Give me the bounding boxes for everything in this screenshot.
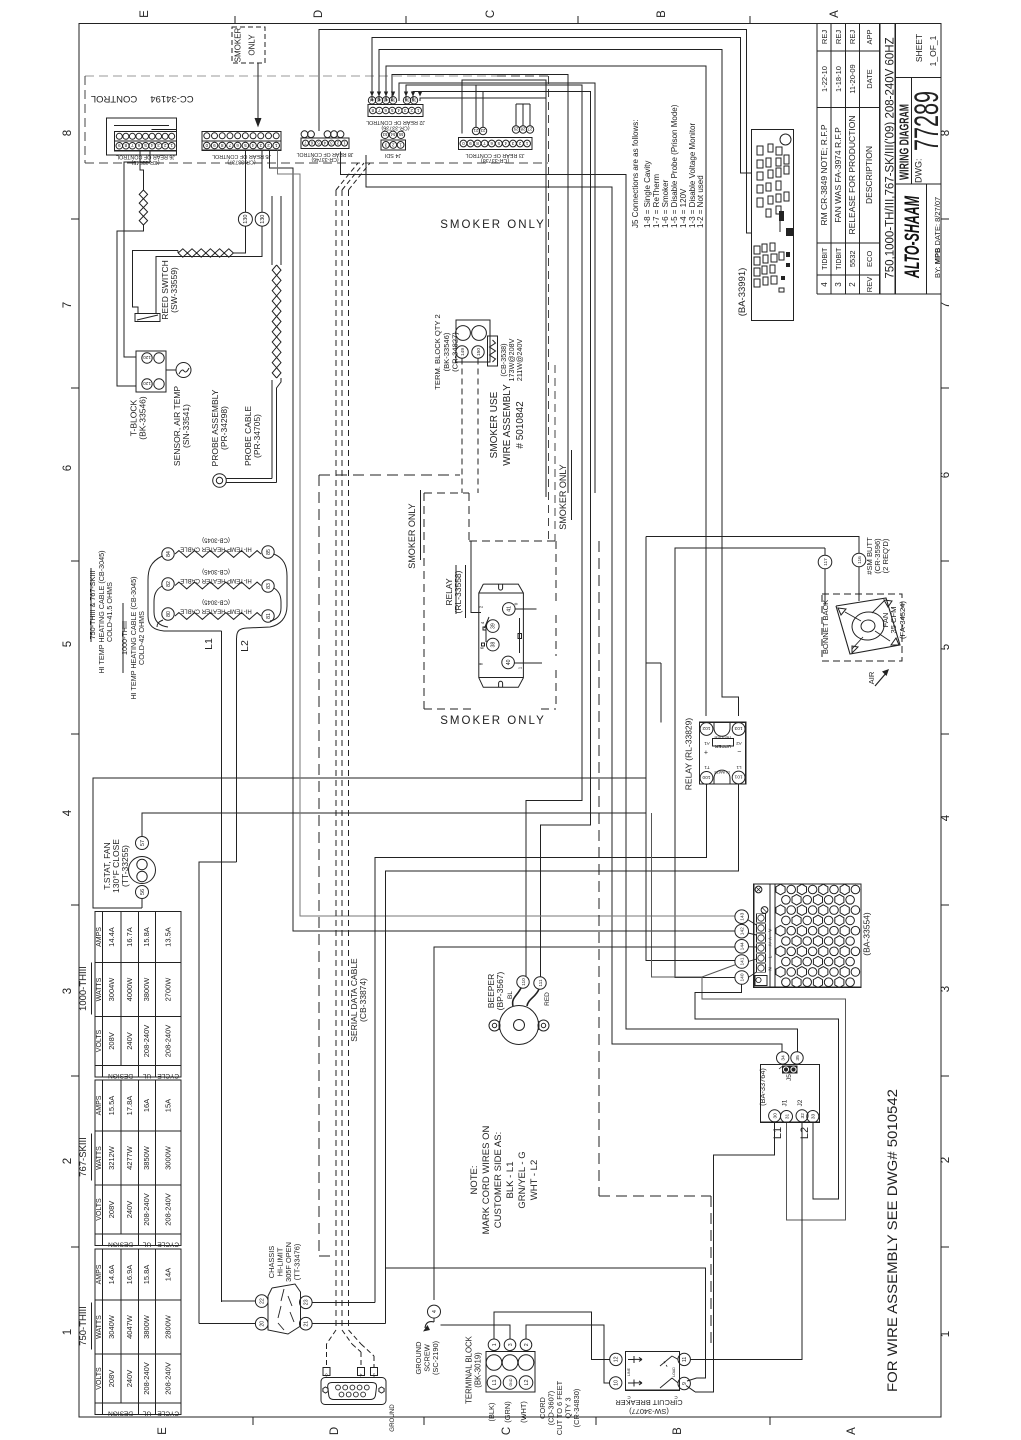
BA-33554 terminal 141 <box>735 955 749 969</box>
wire fan 116 feed <box>646 536 859 553</box>
svg-text:3: 3 <box>508 1343 514 1346</box>
svg-text:(SC-2190): (SC-2190) <box>431 1341 440 1375</box>
svg-text:6: 6 <box>137 143 140 148</box>
svg-text:TIDBIT: TIDBIT <box>822 247 829 270</box>
svg-text:208V: 208V <box>107 1370 116 1388</box>
svg-text:(GRN): (GRN) <box>503 1401 512 1422</box>
svg-text:2: 2 <box>524 1343 530 1346</box>
svg-text:1-22-10: 1-22-10 <box>820 66 829 92</box>
svg-text:WATTS: WATTS <box>96 977 103 1001</box>
svg-text:4: 4 <box>432 1310 438 1313</box>
svg-text:57: 57 <box>140 840 146 846</box>
svg-text:21: 21 <box>473 128 478 133</box>
svg-text:140: 140 <box>740 973 746 981</box>
svg-text:GND: GND <box>509 1378 513 1386</box>
svg-text:(WHT): (WHT) <box>519 1401 528 1423</box>
svg-text:(PR-34298): (PR-34298) <box>219 406 229 450</box>
svg-text:WATTS: WATTS <box>96 1146 103 1170</box>
svg-text:A+ A-: A+ A- <box>768 935 773 946</box>
T-stat fan TT-33255 <box>136 837 149 850</box>
svg-text:34: 34 <box>780 1055 786 1061</box>
svg-text:DESCRIPTION: DESCRIPTION <box>864 146 874 204</box>
svg-text:AIR: AIR <box>867 671 876 684</box>
svg-text:8: 8 <box>371 108 374 113</box>
svg-text:REV: REV <box>865 277 874 292</box>
svg-text:(SW-34077): (SW-34077) <box>629 1407 669 1416</box>
relay RL-33558 contacts <box>485 617 490 628</box>
svg-text:UPPER: UPPER <box>714 743 731 749</box>
wire reed switch left to circled 130 via twisted pair <box>133 250 179 313</box>
svg-text:10: 10 <box>613 1380 619 1386</box>
fan terminal 116 <box>852 553 866 567</box>
svg-text:54: 54 <box>390 132 395 137</box>
relay RL-33558 pin2 wire <box>471 541 481 612</box>
svg-text:1: 1 <box>492 1343 498 1346</box>
heater terminal 82 <box>162 578 174 590</box>
wire J5 drop 142 <box>270 151 736 931</box>
heater terminal 85 <box>262 546 274 558</box>
svg-text:(CB-3045): (CB-3045) <box>202 568 230 574</box>
svg-text:4: 4 <box>940 814 952 821</box>
wire TB pin2 to breaker 10 <box>526 1325 610 1383</box>
svg-text:211W@240V: 211W@240V <box>515 339 524 382</box>
svg-text:5: 5 <box>62 641 74 647</box>
svg-text:11-20-09: 11-20-09 <box>848 64 857 93</box>
svg-text:13.5A: 13.5A <box>163 927 172 947</box>
svg-text:DATE: DATE <box>865 69 874 88</box>
svg-text:A: A <box>846 1427 858 1435</box>
svg-text:101: 101 <box>734 774 742 780</box>
svg-text:141: 141 <box>740 957 746 965</box>
hi-temp heater cable 3 <box>175 613 261 620</box>
svg-text:41: 41 <box>507 606 513 612</box>
fan terminal 117 <box>818 555 832 569</box>
reed switch SW-33559 <box>135 314 160 322</box>
svg-text:55: 55 <box>398 132 403 137</box>
serial data cable dashed bundle <box>335 190 337 1330</box>
svg-text:SMOKER ONLY: SMOKER ONLY <box>407 503 417 568</box>
svg-text:14A: 14A <box>163 1268 172 1281</box>
wire J8 pin to BA-33764 35 feed <box>341 151 798 1051</box>
BA-33764 pins 30 31 32 33 <box>769 1110 781 1122</box>
svg-text:AMPS: AMPS <box>96 927 103 947</box>
BA-33764 J5 jumper block <box>782 1066 798 1074</box>
svg-text:130: 130 <box>243 215 249 224</box>
svg-text:6: 6 <box>490 141 493 146</box>
heater terminal 81 <box>262 610 274 622</box>
svg-text:39: 39 <box>390 98 395 103</box>
svg-text:APP: APP <box>865 29 874 44</box>
svg-text:(BA-33991): (BA-33991) <box>737 268 748 317</box>
svg-text:(TT-33255): (TT-33255) <box>120 845 130 887</box>
BA-33554 screws <box>755 886 762 893</box>
svg-text:16.9A: 16.9A <box>125 1265 134 1285</box>
svg-text:LINE: LINE <box>627 1367 631 1376</box>
svg-text:14.4A: 14.4A <box>107 927 116 947</box>
svg-text:208-240V: 208-240V <box>163 1025 172 1058</box>
svg-text:MARK CORD WIRES ON: MARK CORD WIRES ON <box>481 1126 492 1235</box>
spec table 767-SKIII <box>95 1080 181 1246</box>
svg-text:1: 1 <box>170 143 173 148</box>
title block outline <box>816 24 818 295</box>
svg-text:AMPS: AMPS <box>96 1264 103 1284</box>
svg-text:6: 6 <box>62 465 74 471</box>
svg-text:SMOKER ONLY: SMOKER ONLY <box>440 715 546 727</box>
BA-33554 honeycomb pattern <box>776 884 785 895</box>
svg-text:3: 3 <box>259 143 262 148</box>
svg-text:CYCLE: CYCLE <box>157 1410 179 1417</box>
spec table 1000-THIII <box>95 912 181 1078</box>
svg-text:5: 5 <box>940 644 952 650</box>
svg-text:N: N <box>768 967 773 970</box>
svg-text:143: 143 <box>740 912 746 920</box>
svg-text:L: L <box>768 955 773 958</box>
svg-text:100: 100 <box>702 774 710 780</box>
svg-text:HI-TEMP HEATER CABLE: HI-TEMP HEATER CABLE <box>180 546 251 552</box>
wire to 34 <box>611 1043 613 1045</box>
svg-text:REJ: REJ <box>834 30 843 44</box>
board BA-33554 <box>754 884 861 987</box>
svg-text:1000-THIII: 1000-THIII <box>78 966 89 1011</box>
svg-text:J1: J1 <box>782 1099 789 1106</box>
wire hi-limit 20 to left riser <box>199 1323 255 1325</box>
hi-limit terminals <box>255 1295 268 1308</box>
svg-text:L1: L1 <box>736 765 742 770</box>
svg-text:2: 2 <box>392 142 395 147</box>
bus wire J2 pin3 to relay RL-33829 pin 102 <box>386 66 706 716</box>
svg-text:40: 40 <box>506 659 512 665</box>
svg-text:WIRE ASSEMBLY: WIRE ASSEMBLY <box>502 384 513 466</box>
svg-text:16A: 16A <box>142 1099 151 1112</box>
wire pin30 to breaker 9 <box>695 1122 775 1392</box>
circuit breaker SW-34077 body <box>626 1352 680 1391</box>
wire y663 tie <box>646 662 661 664</box>
svg-text:J5 Connections are as follows:: J5 Connections are as follows: <box>631 120 640 229</box>
svg-text:31: 31 <box>784 1114 790 1120</box>
wire T-stat 56 down loop <box>141 899 143 909</box>
svg-text:2: 2 <box>518 141 521 146</box>
dashed wires from 149/150 <box>461 359 463 494</box>
BA-33764 pin 34 <box>777 1052 789 1064</box>
svg-text:3: 3 <box>157 143 160 148</box>
svg-text:142: 142 <box>740 927 746 935</box>
svg-text:VOLTS: VOLTS <box>96 1198 103 1221</box>
svg-text:3800W: 3800W <box>142 977 151 1002</box>
svg-text:3850W: 3850W <box>142 1145 151 1170</box>
svg-text:0: 0 <box>462 141 465 146</box>
svg-text:(FA-34524): (FA-34524) <box>898 601 907 639</box>
wire TB pin1 to breaker 12 <box>494 1312 610 1359</box>
svg-text:J6 REAR OF CONTROL: J6 REAR OF CONTROL <box>116 154 175 160</box>
svg-text:VOLTS: VOLTS <box>96 1029 103 1052</box>
svg-text:1: 1 <box>399 142 402 147</box>
svg-text:(BLK): (BLK) <box>487 1403 496 1422</box>
svg-text:3004W: 3004W <box>107 977 116 1002</box>
svg-text:22: 22 <box>260 1298 266 1304</box>
bus wire J2 pin8 to J3 drop <box>420 98 546 101</box>
svg-text:CYCLE: CYCLE <box>157 1072 179 1079</box>
wire hi-limit 23 right <box>312 1301 375 1303</box>
svg-text:3: 3 <box>330 141 333 146</box>
svg-text:DESIGN: DESIGN <box>108 1072 133 1079</box>
svg-text:21: 21 <box>304 1321 310 1327</box>
svg-text:35: 35 <box>411 98 416 103</box>
svg-text:7: 7 <box>378 108 381 113</box>
svg-text:117: 117 <box>823 558 829 566</box>
svg-text:(CR-33737): (CR-33737) <box>227 159 255 165</box>
relay RL-33829 pins <box>700 723 713 736</box>
svg-text:4277W: 4277W <box>125 1145 134 1170</box>
svg-text:1: 1 <box>525 141 528 146</box>
svg-text:208-240V: 208-240V <box>163 1362 172 1395</box>
svg-text:L1: L1 <box>772 1127 784 1139</box>
svg-text:(TT-33476): (TT-33476) <box>293 1244 302 1281</box>
relay RL-33829 body <box>699 722 745 784</box>
svg-text:82: 82 <box>166 581 172 587</box>
heater riser x646 to terminal 141 <box>646 536 735 960</box>
BA-33554 terminal 142 <box>735 924 749 938</box>
svg-text:3000W: 3000W <box>163 1145 172 1170</box>
svg-text:L1: L1 <box>203 638 215 650</box>
svg-text:D: D <box>313 10 325 18</box>
svg-text:BLK - L1: BLK - L1 <box>505 1162 516 1199</box>
svg-text:J2 REAR OF CONTROL: J2 REAR OF CONTROL <box>366 119 425 125</box>
svg-text:150: 150 <box>476 348 482 356</box>
svg-text:1-7 = ReTherm: 1-7 = ReTherm <box>652 174 661 228</box>
T-block BK-33546 <box>136 351 166 392</box>
svg-text:E: E <box>157 1427 169 1435</box>
svg-text:53: 53 <box>382 132 387 137</box>
wire J6 to T-block upper <box>124 151 150 358</box>
hi-temp heater cable 1 <box>175 551 261 558</box>
svg-text:DESIGN: DESIGN <box>108 1241 133 1248</box>
svg-text:L2: L2 <box>524 1380 530 1386</box>
svg-text:7: 7 <box>228 143 231 148</box>
svg-text:15A: 15A <box>163 1099 172 1112</box>
svg-text:84: 84 <box>166 551 172 557</box>
svg-text:6: 6 <box>384 108 387 113</box>
J2 pin wire arrowheads <box>370 92 374 97</box>
svg-text:240V: 240V <box>125 1370 134 1388</box>
svg-text:AMPS: AMPS <box>96 1095 103 1115</box>
svg-text:110: 110 <box>521 978 527 986</box>
heater terminal 80 <box>162 608 174 620</box>
svg-text:NOTE:: NOTE: <box>469 1165 480 1194</box>
terminal block BK-3019 <box>486 1352 535 1393</box>
wire 140 down path to pin33 <box>695 984 839 1199</box>
svg-text:BY: MPB DATE: 8/27/07: BY: MPB DATE: 8/27/07 <box>933 197 942 278</box>
svg-text:RED: RED <box>544 992 551 1006</box>
svg-text:83: 83 <box>266 583 272 589</box>
svg-text:12: 12 <box>614 1356 620 1362</box>
svg-text:J8 REAR OF CONTROL: J8 REAR OF CONTROL <box>297 151 354 157</box>
probe assembly PR-34298 <box>216 477 222 483</box>
svg-text:LOAD: LOAD <box>672 1367 676 1377</box>
svg-text:UL: UL <box>142 1241 151 1248</box>
svg-text:BL: BL <box>507 991 514 999</box>
svg-text:COLD-41.5 OHMS: COLD-41.5 OHMS <box>105 582 114 642</box>
svg-text:85: 85 <box>266 549 272 555</box>
svg-text:2800W: 2800W <box>163 1314 172 1339</box>
bus wire J2 pin7 to beeper 111 <box>413 91 591 976</box>
svg-text:SMOKER ONLY: SMOKER ONLY <box>440 219 546 231</box>
wire fan 117 feed and riser to 140 <box>675 548 825 977</box>
svg-text:CONTROL: CONTROL <box>91 93 137 104</box>
connector J4 SDI <box>381 140 406 150</box>
svg-text:27: 27 <box>527 127 532 132</box>
relay RL-33558 body <box>479 584 524 687</box>
svg-text:(CR-33736): (CR-33736) <box>381 125 409 131</box>
svg-text:ECO: ECO <box>865 251 874 267</box>
svg-text:23: 23 <box>304 1299 310 1305</box>
svg-text:J2: J2 <box>797 1099 804 1106</box>
probe cable twisted pair <box>226 478 272 480</box>
spec table 750-THIII <box>95 1249 181 1415</box>
wire hi-limit 22 to L1 <box>222 1300 256 1302</box>
svg-text:36: 36 <box>404 98 409 103</box>
svg-text:4: 4 <box>150 143 153 148</box>
long-dash smoker boundary right <box>598 541 600 1196</box>
board BA-33764 <box>760 1064 819 1122</box>
svg-text:(CR-33738): (CR-33738) <box>481 157 509 163</box>
svg-text:3: 3 <box>384 142 387 147</box>
svg-text:A2: A2 <box>736 741 742 746</box>
svg-text:208V: 208V <box>107 1201 116 1219</box>
svg-text:SHEET: SHEET <box>914 34 924 62</box>
svg-text:5: 5 <box>391 108 394 113</box>
svg-text:REJ: REJ <box>820 30 829 44</box>
twisted pair chain at J6 drop <box>143 190 147 225</box>
smoker only dashed callout with arrow at J5 <box>232 27 265 63</box>
wire reed switch right to circled 130 <box>156 227 262 314</box>
svg-text:SMOKER ONLY: SMOKER ONLY <box>558 464 568 529</box>
svg-text:+: + <box>704 748 708 755</box>
svg-text:(CR-33746): (CR-33746) <box>311 156 338 162</box>
fan symbol FA-34524 <box>836 598 900 654</box>
svg-text:3040W: 3040W <box>107 1314 116 1339</box>
J3 right pins stubs <box>515 104 517 126</box>
wire T-stat 57 up to y813 <box>142 813 646 837</box>
bus wire J2 pin1 to BA-33991 <box>372 37 751 173</box>
svg-text:3: 3 <box>62 988 74 994</box>
svg-text:UL: UL <box>142 1410 151 1417</box>
bus wire J2 pin2 to relay RL-33829 pin 103 <box>379 49 739 716</box>
svg-text:3800W: 3800W <box>142 1314 151 1339</box>
svg-text:T1: T1 <box>704 765 710 770</box>
svg-text:DESIGN: DESIGN <box>108 1410 133 1417</box>
svg-text:15.8A: 15.8A <box>142 1265 151 1285</box>
svg-text:WATTS: WATTS <box>96 1315 103 1339</box>
svg-text:7: 7 <box>62 302 74 308</box>
svg-text:BONNET BACK: BONNET BACK <box>821 600 830 654</box>
bus wire J2 pin6 to beeper 110 <box>406 85 582 976</box>
BA-33764 pin 35 <box>791 1052 803 1064</box>
beeper BP-3567 <box>500 1006 539 1045</box>
svg-text:2700W: 2700W <box>163 977 172 1002</box>
svg-text:D: D <box>329 1427 341 1435</box>
wire to BA-33764 34 feed <box>366 155 782 1052</box>
svg-text:208-240V: 208-240V <box>163 1193 172 1226</box>
svg-text:9: 9 <box>213 143 216 148</box>
svg-text:7: 7 <box>483 141 486 146</box>
svg-text:4: 4 <box>397 108 400 113</box>
svg-text:(CB-3045): (CB-3045) <box>202 537 230 543</box>
svg-text:750,1000-TH/III,767-SK/III('09: 750,1000-TH/III,767-SK/III('09) 208-240V… <box>885 37 897 278</box>
svg-text:SMOKER: SMOKER <box>234 27 243 62</box>
svg-text:# 5010842: # 5010842 <box>515 401 526 449</box>
svg-text:(BK-3019): (BK-3019) <box>474 1352 483 1388</box>
BA-33554 terminal 140 <box>735 971 749 985</box>
svg-text:17.8A: 17.8A <box>125 1096 134 1116</box>
heater right bus arcs to L2 <box>237 554 287 638</box>
svg-text:1: 1 <box>343 141 346 146</box>
smoker dashed box <box>424 492 469 494</box>
svg-text:29: 29 <box>513 127 518 132</box>
wire 141 down path to pin31 <box>652 813 846 1220</box>
circuit breaker internals <box>628 1358 634 1360</box>
svg-text:RM CR-3849 NOTE; R.F.P: RM CR-3849 NOTE; R.F.P <box>819 124 829 225</box>
svg-text:2: 2 <box>410 108 413 113</box>
svg-text:56: 56 <box>140 889 146 895</box>
svg-text:14.6A: 14.6A <box>107 1265 116 1285</box>
svg-text:120: 120 <box>143 381 151 386</box>
svg-text:1-2 = Not used: 1-2 = Not used <box>696 175 705 228</box>
svg-text:1: 1 <box>940 1331 952 1337</box>
wire pin32 to breaker 11 <box>691 1122 803 1360</box>
svg-text:WHT - L2: WHT - L2 <box>529 1160 540 1200</box>
fan stubs <box>858 567 860 601</box>
svg-text:C: C <box>501 1427 513 1435</box>
svg-text:3: 3 <box>511 141 514 146</box>
svg-text:38: 38 <box>491 642 497 648</box>
svg-text:B: B <box>672 1427 684 1435</box>
svg-text:8: 8 <box>62 130 74 136</box>
svg-text:CIRCUIT BREAKER: CIRCUIT BREAKER <box>615 1398 682 1407</box>
svg-text:(CR-34830): (CR-34830) <box>572 1389 581 1428</box>
svg-text:1000-THIII: 1000-THIII <box>120 621 129 655</box>
svg-text:6: 6 <box>940 472 952 478</box>
svg-text:E: E <box>139 10 151 18</box>
svg-text:1: 1 <box>416 108 419 113</box>
svg-text:L2: L2 <box>239 640 251 652</box>
svg-text:30: 30 <box>772 1113 778 1119</box>
svg-text:6: 6 <box>310 141 313 146</box>
svg-text:4047W: 4047W <box>125 1314 134 1339</box>
svg-text:81: 81 <box>266 613 272 619</box>
svg-text:120: 120 <box>143 355 151 360</box>
svg-text:CUSTOMER SIDE AS:: CUSTOMER SIDE AS: <box>493 1132 504 1228</box>
svg-text:DWG:: DWG: <box>914 159 924 184</box>
svg-text:(2 REQ'D): (2 REQ'D) <box>881 538 890 573</box>
svg-text:149: 149 <box>460 348 466 356</box>
svg-text:15.8A: 15.8A <box>142 927 151 947</box>
wire hi-limit 21 right <box>312 1323 386 1325</box>
svg-text:L2: L2 <box>799 1127 811 1139</box>
svg-text:208-240V: 208-240V <box>142 1025 151 1058</box>
BA-33554 terminal 144 <box>735 940 749 954</box>
wire J6 to T-block lower via twisted pair <box>140 151 143 191</box>
svg-text:C: C <box>485 10 497 18</box>
relay RL-33558 pins <box>503 603 516 616</box>
svg-text:RELAY (RL-33829): RELAY (RL-33829) <box>684 718 694 791</box>
smoker heater CB-3538 <box>488 336 498 366</box>
svg-text:8: 8 <box>124 143 127 148</box>
svg-text:240V: 240V <box>125 1032 134 1050</box>
svg-text:20: 20 <box>260 1321 266 1327</box>
wire relay101 to hi-limit 21 <box>386 784 739 1323</box>
L2 lead <box>236 638 238 862</box>
svg-text:HI-TEMP HEATER CABLE: HI-TEMP HEATER CABLE <box>180 608 251 614</box>
